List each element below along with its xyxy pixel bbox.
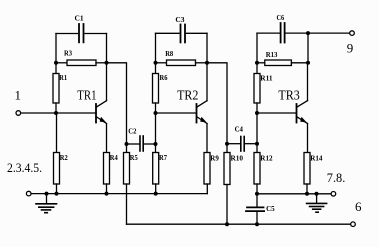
capacitor C4 xyxy=(227,125,257,151)
wire input xyxy=(21,112,96,114)
svg-text:R13: R13 xyxy=(266,50,278,59)
capacitor C1 xyxy=(56,14,107,43)
svg-text:7.8.: 7.8. xyxy=(327,170,346,185)
ground right xyxy=(307,194,327,212)
svg-text:C5: C5 xyxy=(266,204,275,213)
svg-text:R11: R11 xyxy=(260,73,273,82)
node C4 right xyxy=(255,142,259,146)
transistor TR3 xyxy=(278,89,307,124)
svg-text:1: 1 xyxy=(15,88,22,103)
node R7 rail xyxy=(154,192,158,196)
resistor R12 xyxy=(254,153,273,194)
terminal 6 xyxy=(351,199,362,227)
svg-text:C1: C1 xyxy=(75,14,84,23)
node R2 rail xyxy=(55,192,59,196)
svg-text:6: 6 xyxy=(355,199,362,214)
wire collector up xyxy=(106,63,108,101)
capacitor C5 xyxy=(246,194,275,224)
svg-text:TR1: TR1 xyxy=(77,88,96,103)
wire emitter down xyxy=(106,124,108,154)
wire collector up xyxy=(206,63,208,101)
transistor TR1 xyxy=(77,88,106,123)
node B3 xyxy=(255,111,259,115)
node B2 xyxy=(154,111,158,115)
wire base TR3 xyxy=(257,112,297,114)
svg-text:C6: C6 xyxy=(277,13,285,22)
svg-text:R8: R8 xyxy=(165,49,173,58)
wire R9 to rail corner xyxy=(206,184,208,194)
svg-text:R12: R12 xyxy=(260,154,273,163)
resistor R4 xyxy=(104,153,119,194)
resistor R5 xyxy=(124,144,139,224)
svg-text:2.3.4.5.: 2.3.4.5. xyxy=(7,160,42,175)
wire xyxy=(155,33,157,63)
resistor R1 xyxy=(53,63,67,113)
terminal 7.8. xyxy=(327,170,346,196)
svg-text:R5: R5 xyxy=(130,153,138,162)
svg-text:R7: R7 xyxy=(159,153,167,162)
wire xyxy=(106,34,108,63)
capacitor C2 xyxy=(127,127,156,151)
resistor R10 xyxy=(224,144,243,225)
node A1 xyxy=(54,61,58,65)
wire xyxy=(206,33,208,63)
wire emitter down xyxy=(206,124,208,153)
wire B1 to R2 xyxy=(56,113,58,153)
wire ground rail right xyxy=(257,193,331,195)
svg-text:R6: R6 xyxy=(160,73,168,82)
node collector TR3 xyxy=(306,61,310,65)
resistor R9 xyxy=(204,153,219,185)
resistor R13 xyxy=(257,50,308,65)
node A2 xyxy=(154,61,158,65)
wire ground rail left xyxy=(31,193,207,195)
terminal 9 xyxy=(347,31,355,56)
wire jog collector2 to C4 xyxy=(207,63,227,144)
node C2 left xyxy=(125,142,129,146)
resistor R7 xyxy=(153,153,168,194)
node collector TR2 xyxy=(205,61,209,65)
capacitor C6 xyxy=(257,13,308,43)
node collector TR1 xyxy=(105,61,109,65)
wire collector up xyxy=(307,63,309,101)
svg-text:TR2: TR2 xyxy=(177,88,198,103)
node R10 bus xyxy=(225,222,229,226)
node C4 left xyxy=(225,142,229,146)
wire base TR2 xyxy=(156,112,197,114)
wire bottom bus xyxy=(127,223,351,225)
node C2 right xyxy=(154,142,158,146)
node top right xyxy=(306,31,310,35)
svg-text:R1: R1 xyxy=(59,73,67,82)
capacitor C3 xyxy=(156,15,208,42)
transistor TR2 xyxy=(177,88,207,123)
resistor R8 xyxy=(156,49,208,66)
wire xyxy=(256,33,258,63)
wire to terminal 9 xyxy=(308,32,350,34)
wire B2 down to C2 right and R7 xyxy=(155,113,157,153)
svg-text:TR3: TR3 xyxy=(278,89,299,104)
resistor R2 xyxy=(54,153,69,194)
svg-text:C2: C2 xyxy=(128,127,136,136)
svg-text:R14: R14 xyxy=(310,154,323,163)
wire emitter down xyxy=(307,124,309,153)
terminal 2.3.4.5. xyxy=(7,160,42,196)
node B1 xyxy=(54,111,58,115)
svg-text:R2: R2 xyxy=(60,153,68,162)
svg-text:R4: R4 xyxy=(110,153,118,162)
svg-text:C3: C3 xyxy=(175,15,184,24)
resistor R6 xyxy=(153,63,168,113)
resistor R14 xyxy=(304,153,323,194)
svg-text:9: 9 xyxy=(347,40,354,55)
node R12 rail xyxy=(255,192,259,196)
wire B3 down to C4 right and R12 xyxy=(256,113,258,153)
svg-text:R3: R3 xyxy=(64,49,72,58)
resistor R11 xyxy=(254,63,273,113)
ground left xyxy=(36,194,57,213)
node A3 xyxy=(255,61,259,65)
svg-text:R10: R10 xyxy=(231,154,244,163)
node C5 bus xyxy=(255,222,259,226)
wire xyxy=(307,33,309,63)
node R14 rail xyxy=(305,192,309,196)
node ground1 xyxy=(45,192,49,196)
wire jog collector1 to C2 xyxy=(107,63,127,144)
node R4 rail xyxy=(105,192,109,196)
svg-text:C4: C4 xyxy=(235,125,244,134)
node ground2 xyxy=(315,192,319,196)
svg-text:R9: R9 xyxy=(210,154,219,163)
terminal 1 xyxy=(15,88,22,116)
resistor R3 xyxy=(56,49,107,66)
wire xyxy=(55,34,57,63)
